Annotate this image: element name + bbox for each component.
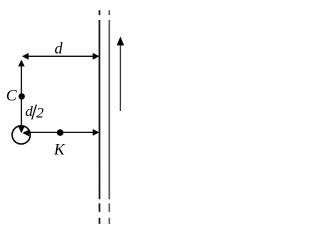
svg-text:K: K xyxy=(53,141,66,158)
svg-text:d: d xyxy=(55,40,64,57)
svg-text:2: 2 xyxy=(36,106,44,122)
svg-text:C: C xyxy=(6,88,17,105)
